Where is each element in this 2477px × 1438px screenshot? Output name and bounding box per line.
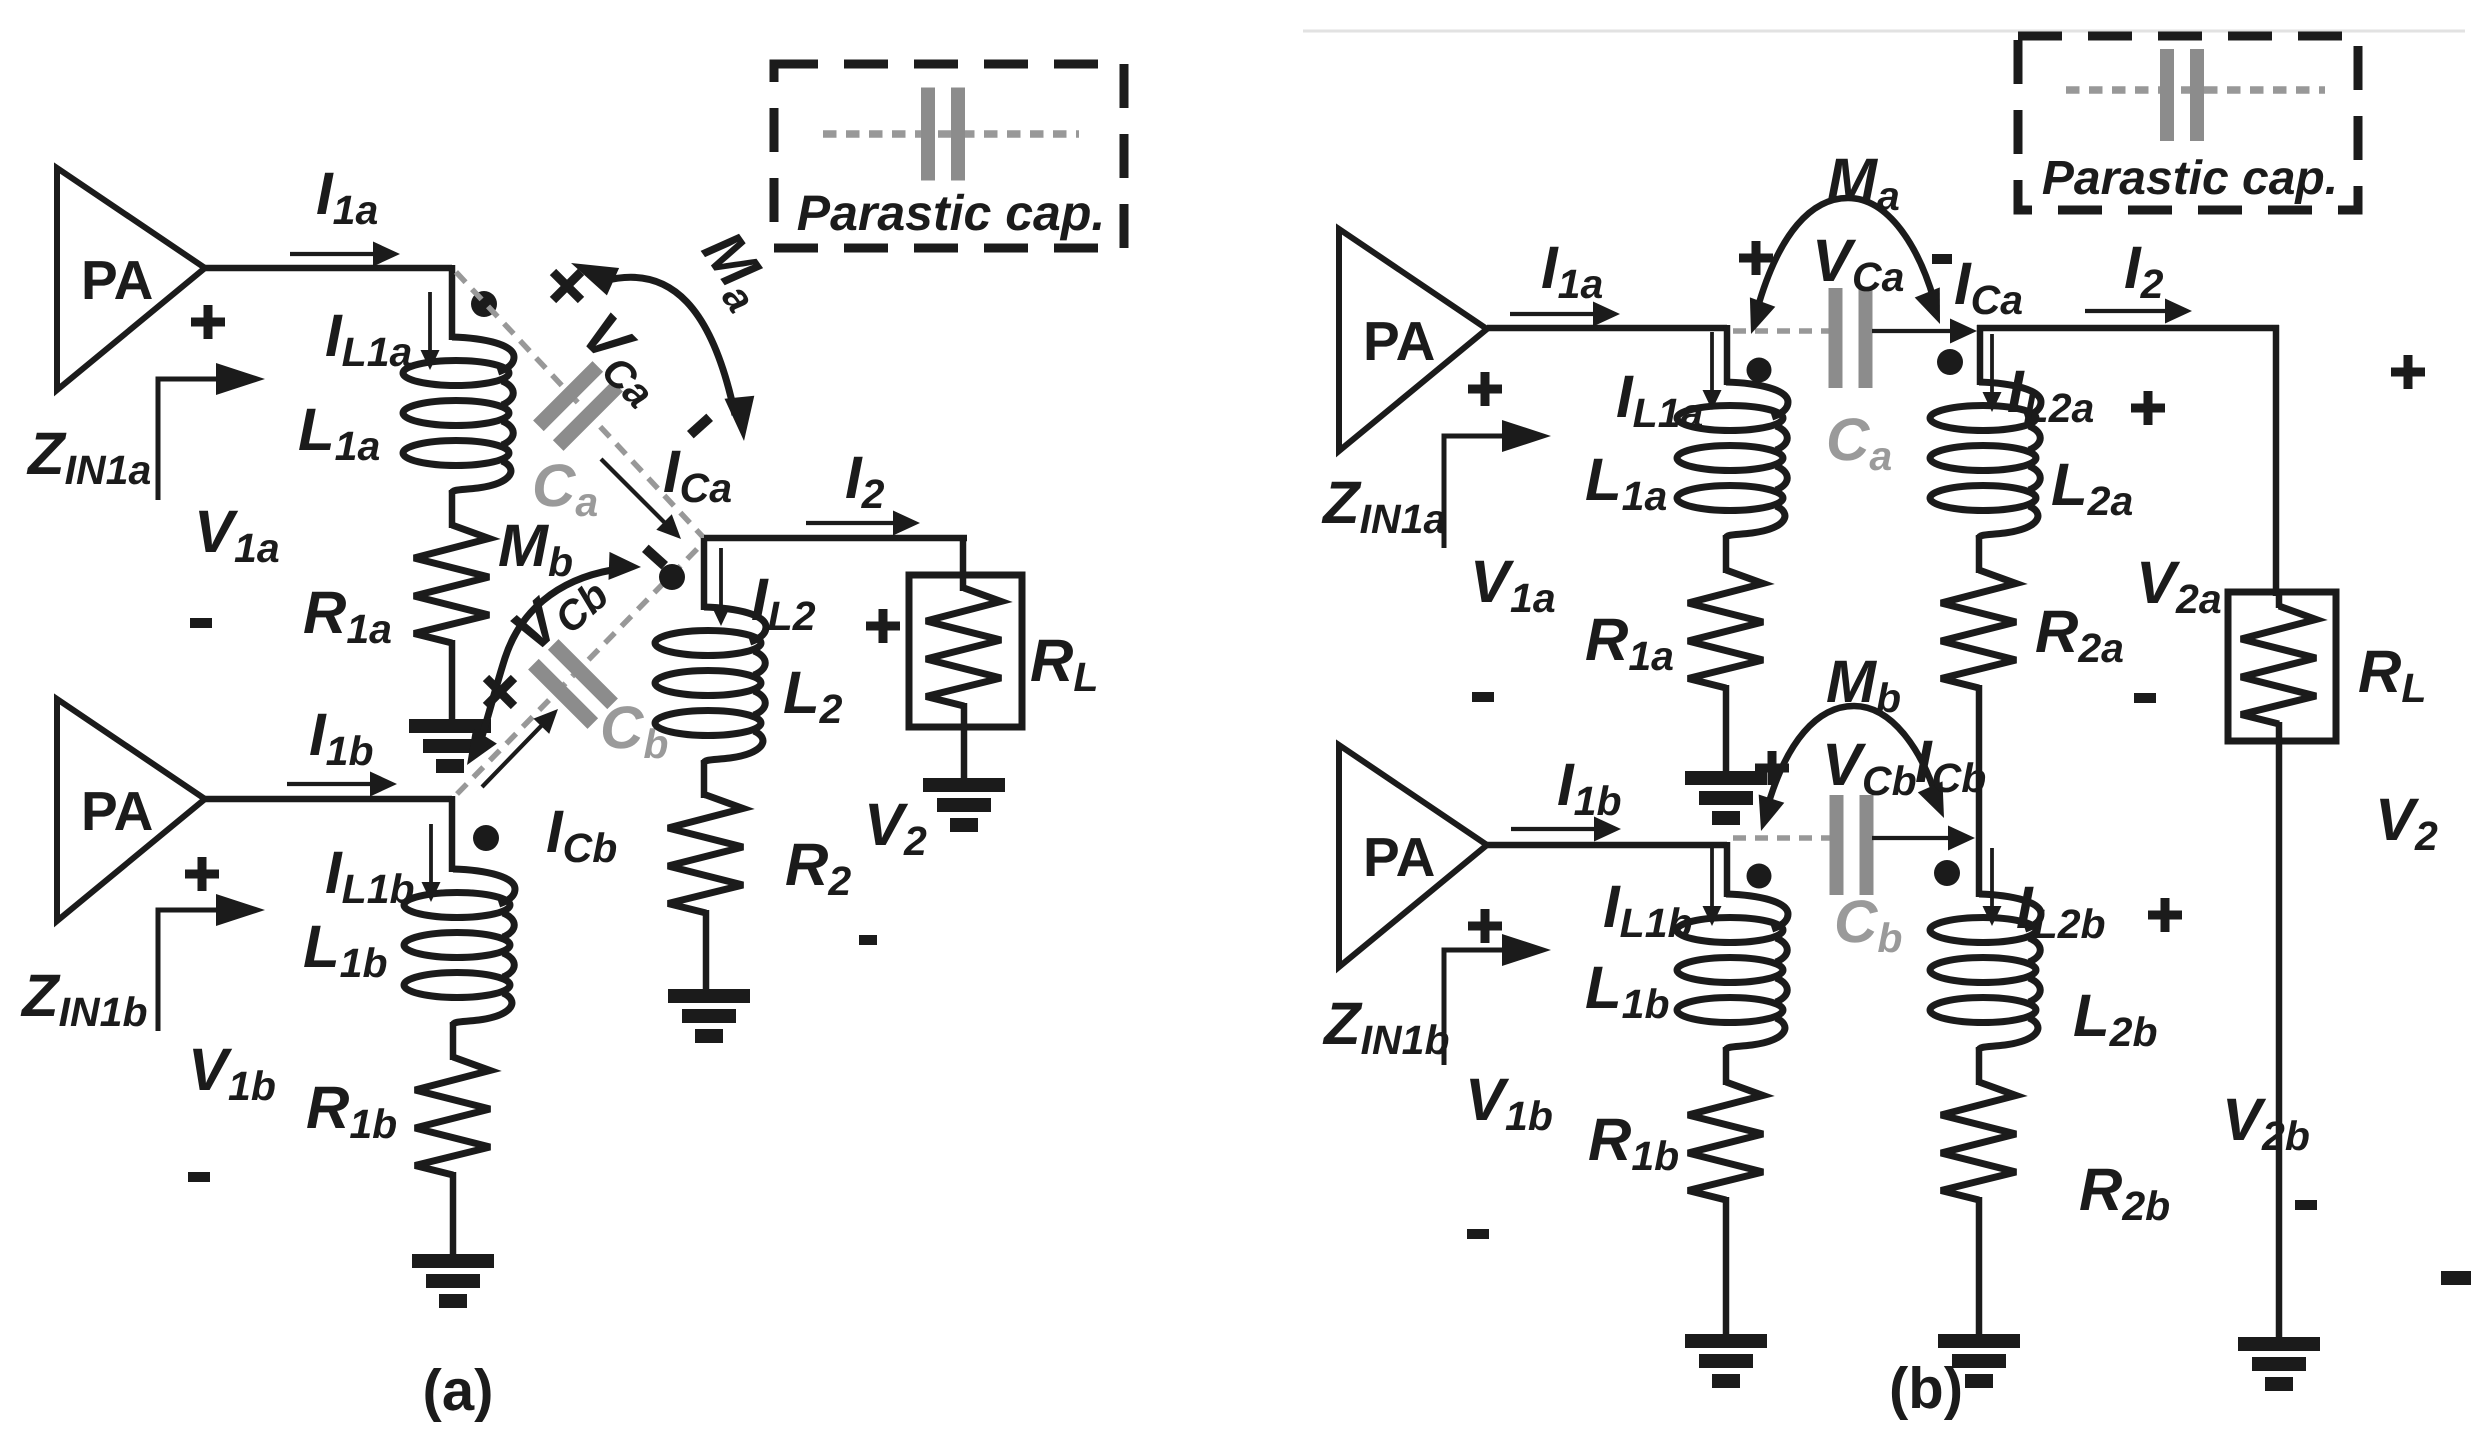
label R1a bbox=[303, 579, 392, 652]
wire R2b to ground (fig b) bbox=[1976, 1197, 1983, 1337]
label Ca bbox=[532, 452, 598, 525]
current arrow I1a bbox=[290, 242, 400, 267]
wire secondary node a to RL and L2a bbox=[1977, 325, 2279, 596]
rotated minus VCa bbox=[690, 417, 709, 434]
label IL1b bbox=[325, 839, 415, 912]
label ZIN1b bbox=[20, 962, 148, 1035]
rotated minus VCb bbox=[645, 548, 664, 565]
svg-text:PA: PA bbox=[1363, 310, 1435, 372]
mutual inductance arc Mb bbox=[467, 552, 641, 765]
label R1b bbox=[306, 1074, 397, 1147]
label VCb (rotated) bbox=[498, 552, 617, 670]
label IL2 bbox=[751, 566, 816, 639]
legend capacitor symbol (fig a) bbox=[921, 88, 965, 181]
legend box Parastic cap. (fig a) bbox=[774, 64, 1124, 248]
label V2a (fig b) bbox=[2136, 549, 2222, 622]
ground under R1b (fig b) bbox=[1685, 1334, 1767, 1388]
inductor L2a (fig b) bbox=[1930, 382, 2041, 538]
label I1a (fig b) bbox=[1541, 234, 1603, 307]
current arrow I1b (fig b) bbox=[1511, 817, 1621, 842]
legend text Parastic cap. (fig a) bbox=[797, 185, 1106, 241]
plus sign V1b bbox=[185, 857, 219, 891]
power amplifier PA (bottom, fig a) bbox=[57, 699, 205, 921]
label ZIN1a (fig b) bbox=[1321, 469, 1446, 542]
mutual arc Mb (fig b) bbox=[1759, 706, 1944, 831]
minus sign V2a (fig b) bbox=[2134, 693, 2156, 703]
minus sign V1a (fig b) bbox=[1472, 692, 1494, 702]
caption (a) bbox=[423, 1358, 494, 1423]
dot L2b (fig b) bbox=[1934, 860, 1960, 886]
label Ma (fig b) bbox=[1827, 146, 1900, 219]
current arrow I1a (fig b) bbox=[1510, 302, 1620, 327]
power amplifier PA (top, fig b) bbox=[1339, 229, 1487, 451]
label IL1a (fig b) bbox=[1616, 363, 1703, 436]
load resistor RL box bbox=[909, 575, 1022, 727]
legend text Parastic cap. (fig b) bbox=[2042, 152, 2338, 205]
current arrow ICa bbox=[601, 459, 681, 539]
wire R1a to ground (fig b) bbox=[1723, 685, 1730, 774]
ground under RL (fig b) bbox=[2238, 1337, 2320, 1391]
label IL2b (fig b) bbox=[2016, 874, 2106, 947]
ground under RL bbox=[923, 778, 1005, 832]
inductor L1a (fig b) bbox=[1677, 382, 1788, 538]
current arrow IL1a bbox=[421, 292, 440, 370]
legend dotted line (fig b) bbox=[2066, 86, 2325, 94]
wire PA2 output to node B bbox=[205, 796, 452, 872]
load resistor RL box (fig b) bbox=[2228, 592, 2336, 741]
label L1b bbox=[303, 913, 388, 986]
wire R1a to ground bbox=[449, 640, 456, 722]
current arrow IL1b bbox=[422, 824, 441, 902]
resistor R1b (fig b) bbox=[1688, 1082, 1763, 1200]
label R1a (fig b) bbox=[1585, 606, 1674, 679]
label ICa (fig b) bbox=[1954, 250, 2023, 323]
minus sign V1b bbox=[188, 1172, 210, 1182]
label L2 bbox=[783, 659, 843, 732]
label VCa (fig b) bbox=[1812, 227, 1904, 300]
resistor R1a (fig b) bbox=[1688, 570, 1763, 688]
node A dot (L1a polarity dot) bbox=[471, 291, 497, 317]
label L1a bbox=[298, 396, 380, 469]
wire R1b to ground bbox=[450, 1172, 457, 1257]
svg-text:Parastic cap.: Parastic cap. bbox=[797, 185, 1106, 241]
label RL bbox=[1030, 627, 1098, 700]
current arrow I1b bbox=[287, 772, 397, 797]
svg-text:PA: PA bbox=[81, 780, 153, 842]
label Cb (fig b) bbox=[1834, 888, 1902, 961]
wire L1a to R1a bbox=[449, 490, 456, 528]
load resistor RL zigzag bbox=[926, 588, 1001, 706]
dashed line node A to output node (through Ca) bbox=[456, 272, 704, 538]
svg-text:Parastic cap.: Parastic cap. bbox=[2042, 152, 2338, 205]
label V1b bbox=[188, 1036, 276, 1109]
label V1a bbox=[194, 498, 280, 571]
ground under R1a (fig b) bbox=[1685, 771, 1767, 825]
impedance arrow Z_IN1b bbox=[158, 894, 265, 1031]
minus sign V2 (fig a) bbox=[859, 935, 877, 945]
label R2 bbox=[785, 831, 851, 904]
svg-text:PA: PA bbox=[1363, 826, 1435, 888]
output node wire to RL bbox=[704, 538, 967, 591]
wire R2a down to node b junction and L2b bbox=[1976, 685, 1983, 897]
dashed line to Cb (fig b) bbox=[1733, 835, 1830, 841]
plus sign V1a bbox=[191, 305, 225, 339]
rotated plus VCb bbox=[486, 678, 514, 706]
ground under R2 bbox=[668, 989, 750, 1043]
dashed line to Ca (fig b) bbox=[1733, 328, 1830, 334]
label Mb bbox=[498, 512, 573, 585]
plus sign V2 (fig a) bbox=[866, 609, 900, 643]
mutual inductance arc Ma bbox=[571, 263, 754, 441]
label R2a (fig b) bbox=[2035, 598, 2124, 671]
svg-text:(b): (b) bbox=[1889, 1356, 1963, 1421]
plus sign VCb (fig b) bbox=[1755, 751, 1789, 785]
wire R1b to ground (fig b) bbox=[1723, 1197, 1730, 1337]
label ZIN1a bbox=[26, 420, 151, 493]
label V2 (fig b) bbox=[2375, 786, 2438, 859]
label Mb (fig b) bbox=[1826, 648, 1901, 721]
legend box Parastic cap. (fig b) bbox=[2018, 36, 2358, 210]
label V2b (fig b) bbox=[2222, 1086, 2310, 1159]
parasitic capacitor Ca bbox=[533, 361, 623, 451]
ground under R1b bbox=[412, 1254, 494, 1308]
label ICb bbox=[546, 798, 617, 871]
label R1b (fig b) bbox=[1588, 1106, 1679, 1179]
current arrow IL1a (fig b) bbox=[1703, 332, 1722, 410]
label Cb bbox=[600, 694, 668, 767]
minus sign V2b (fig b) bbox=[2295, 1200, 2317, 1210]
dot L1b (fig b) bbox=[1747, 864, 1772, 889]
inductor L2 bbox=[655, 607, 766, 763]
parasitic capacitor Ca (fig b) bbox=[1829, 288, 1873, 388]
label I2 (fig a) bbox=[845, 444, 885, 517]
resistor R2 bbox=[668, 795, 743, 913]
wire PA3 output to primary node a bbox=[1487, 325, 1727, 385]
label IL1a bbox=[325, 302, 412, 375]
minus sign VCa (fig b) bbox=[1932, 254, 1952, 264]
label Ma (rotated) bbox=[684, 219, 786, 321]
current arrow ICb bbox=[482, 709, 558, 787]
current arrow IL2 bbox=[712, 548, 731, 626]
impedance arrow Z_IN1b (fig b) bbox=[1444, 934, 1551, 1065]
wire L1b to R1b bbox=[450, 1022, 457, 1060]
ground under R2b (fig b) bbox=[1938, 1334, 2020, 1388]
current arrow IL1b (fig b) bbox=[1703, 848, 1722, 926]
inductor L1b bbox=[404, 869, 515, 1025]
load resistor RL zigzag (fig b) bbox=[2241, 592, 2316, 741]
faint separator line (top of fig b) bbox=[1303, 30, 2465, 33]
label ZIN1b (fig b) bbox=[1322, 990, 1450, 1063]
secondary dot L2 bbox=[659, 564, 685, 590]
label VCa (rotated) bbox=[565, 300, 682, 417]
label V1b (fig b) bbox=[1465, 1066, 1553, 1139]
plus sign V2 (fig b) bbox=[2391, 355, 2425, 389]
plus sign VCa (fig b) bbox=[1739, 241, 1773, 275]
node B dot (L1b polarity dot) bbox=[473, 825, 499, 851]
svg-text:PA: PA bbox=[81, 249, 153, 311]
plus sign V1b (fig b) bbox=[1468, 909, 1502, 943]
wire L1b to R1b (fig b) bbox=[1723, 1047, 1730, 1085]
caption (b) bbox=[1889, 1356, 1963, 1421]
mutual arc Ma (fig b) bbox=[1750, 198, 1940, 334]
dot L1a (fig b) bbox=[1747, 358, 1772, 383]
label L1b (fig b) bbox=[1585, 954, 1670, 1027]
parasitic capacitor Cb (fig b) bbox=[1830, 795, 1874, 895]
wire output node down to L2 bbox=[701, 538, 708, 610]
label ICb (fig b) bbox=[1915, 728, 1986, 801]
label V1a (fig b) bbox=[1470, 548, 1556, 621]
current arrow IL2b (fig b) bbox=[1983, 848, 2002, 926]
label L1a (fig b) bbox=[1585, 446, 1667, 519]
current arrow IL2a (fig b) bbox=[1983, 334, 2002, 412]
wire L1a to R1a (fig b) bbox=[1723, 535, 1730, 573]
wire L2 to R2 bbox=[704, 760, 706, 798]
current arrow ICa (fig b) bbox=[1872, 319, 1977, 344]
label R2b (fig b) bbox=[2079, 1156, 2170, 1229]
plus sign V2a (fig b) bbox=[2131, 391, 2165, 425]
ground under R1a bbox=[409, 719, 491, 773]
impedance arrow Z_IN1a (fig b) bbox=[1444, 420, 1551, 548]
inductor L1a bbox=[403, 337, 514, 493]
svg-text:(a): (a) bbox=[423, 1358, 494, 1423]
label Ca (fig b) bbox=[1826, 406, 1892, 479]
label IL1b (fig b) bbox=[1603, 873, 1693, 946]
label L2a (fig b) bbox=[2051, 451, 2133, 524]
plus sign V2b (fig b) bbox=[2148, 898, 2182, 932]
label I1a bbox=[316, 160, 378, 233]
resistor R2b (fig b) bbox=[1941, 1082, 2016, 1200]
label I2 (fig b) bbox=[2124, 234, 2164, 307]
resistor R1b bbox=[415, 1057, 490, 1175]
parasitic capacitor Cb bbox=[528, 639, 618, 729]
label V2 (fig a) bbox=[864, 791, 927, 864]
current arrow ICb (fig b) bbox=[1872, 826, 1975, 851]
wire RL to ground (fig b) bbox=[2276, 739, 2283, 1340]
legend capacitor symbol (fig b) bbox=[2160, 49, 2204, 141]
label VCb (fig b) bbox=[1822, 731, 1917, 804]
wire RL bottom to ground bbox=[961, 703, 968, 781]
dot L2a (fig b) bbox=[1937, 349, 1963, 375]
wire L2b to R2b (fig b) bbox=[1976, 1047, 1983, 1085]
inductor L1b (fig b) bbox=[1677, 894, 1788, 1050]
label ICa bbox=[663, 438, 732, 511]
label I1b (fig b) bbox=[1557, 751, 1622, 824]
rotated plus VCa bbox=[553, 272, 581, 300]
wire PA4 output to primary node b bbox=[1487, 842, 1727, 897]
power amplifier PA (top, fig a) bbox=[57, 168, 205, 390]
label I1b bbox=[309, 701, 374, 774]
wire L2a to R2a (fig b) bbox=[1976, 535, 1983, 573]
minus sign V1b (fig b) bbox=[1467, 1229, 1489, 1239]
legend dotted line (fig a) bbox=[823, 130, 1079, 138]
impedance arrow Z_IN1a bbox=[158, 363, 265, 500]
current arrow I2 (fig b) bbox=[2085, 299, 2192, 324]
resistor R2a (fig b) bbox=[1941, 570, 2016, 688]
wire R2 to ground bbox=[703, 910, 710, 992]
label RL (fig b) bbox=[2358, 638, 2426, 711]
label L2b (fig b) bbox=[2073, 982, 2158, 1055]
inductor L2b (fig b) bbox=[1930, 894, 2041, 1050]
wire PA1 output to node A bbox=[205, 265, 452, 340]
plus sign V1a (fig b) bbox=[1468, 372, 1502, 406]
resistor R1a bbox=[414, 525, 489, 643]
dashed line node B to output node (through Cb) bbox=[457, 546, 700, 794]
current arrow I2 (fig a) bbox=[806, 511, 920, 536]
power amplifier PA (bottom, fig b) bbox=[1339, 745, 1487, 967]
minus sign V1a bbox=[190, 618, 212, 628]
label IL2a (fig b) bbox=[2007, 358, 2094, 431]
minus sign V2 (fig b) bbox=[2441, 1271, 2471, 1285]
